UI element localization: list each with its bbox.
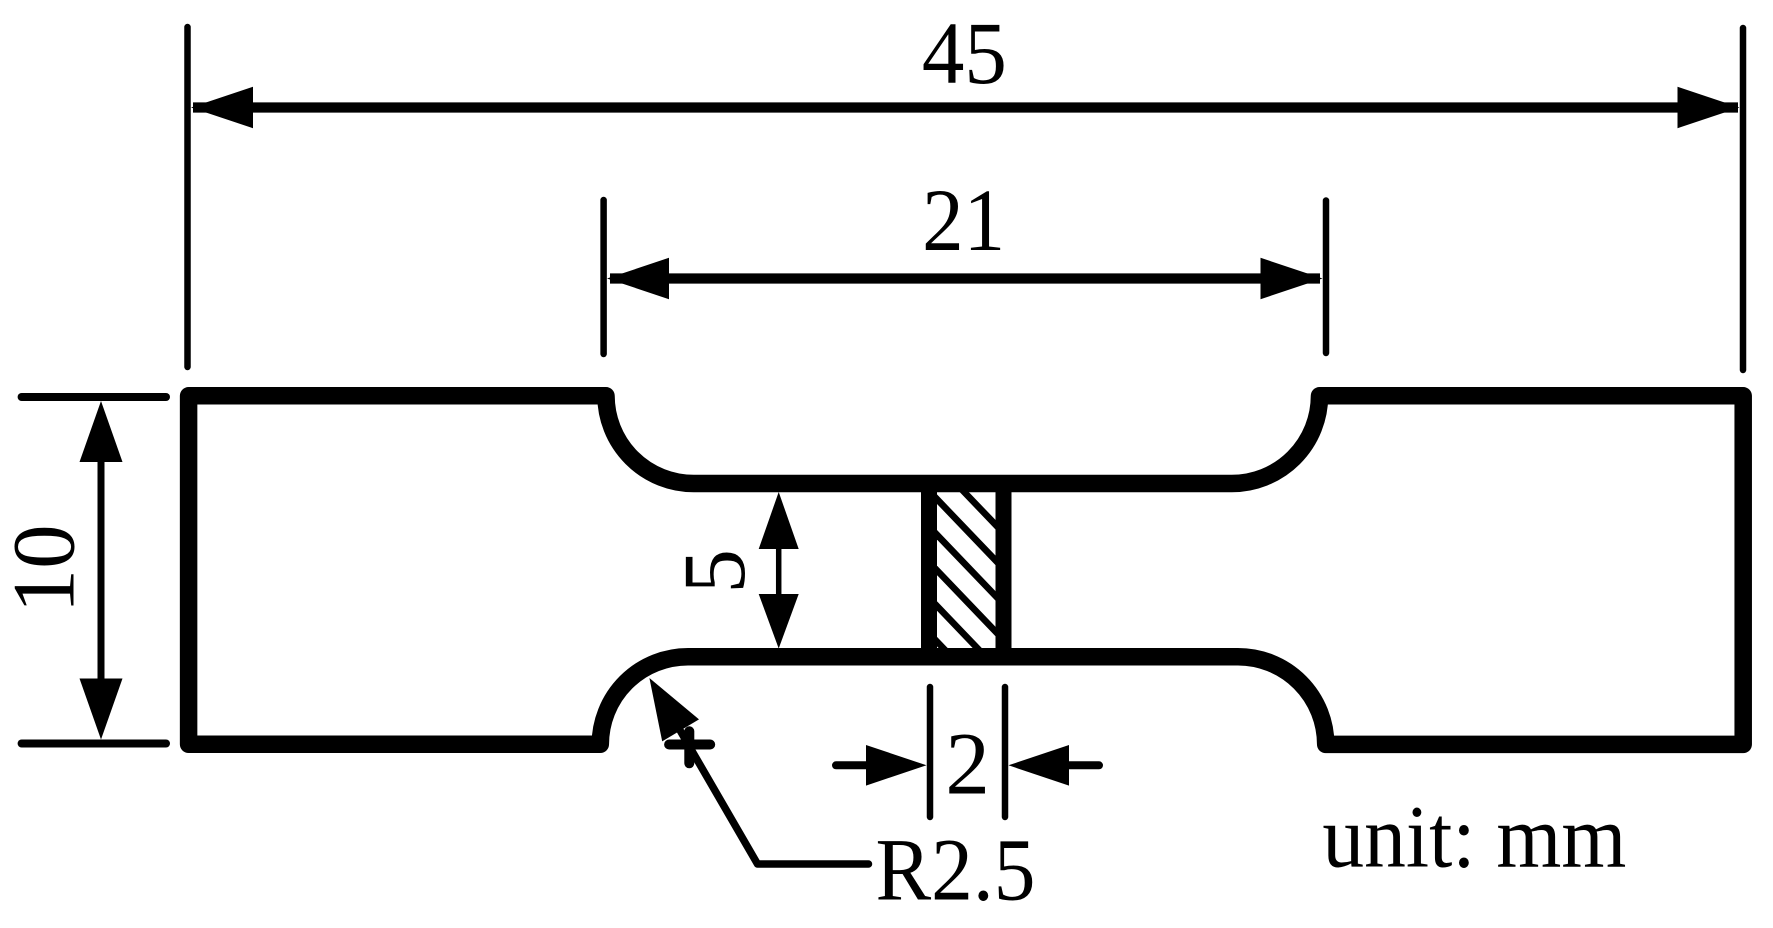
svg-text:R2.5: R2.5 — [876, 822, 1036, 920]
svg-text:10: 10 — [0, 524, 93, 613]
svg-text:5: 5 — [666, 549, 764, 594]
svg-text:45: 45 — [922, 5, 1007, 103]
svg-text:2: 2 — [945, 715, 990, 813]
svg-text:unit: mm: unit: mm — [1322, 789, 1626, 887]
svg-text:21: 21 — [922, 172, 1005, 270]
